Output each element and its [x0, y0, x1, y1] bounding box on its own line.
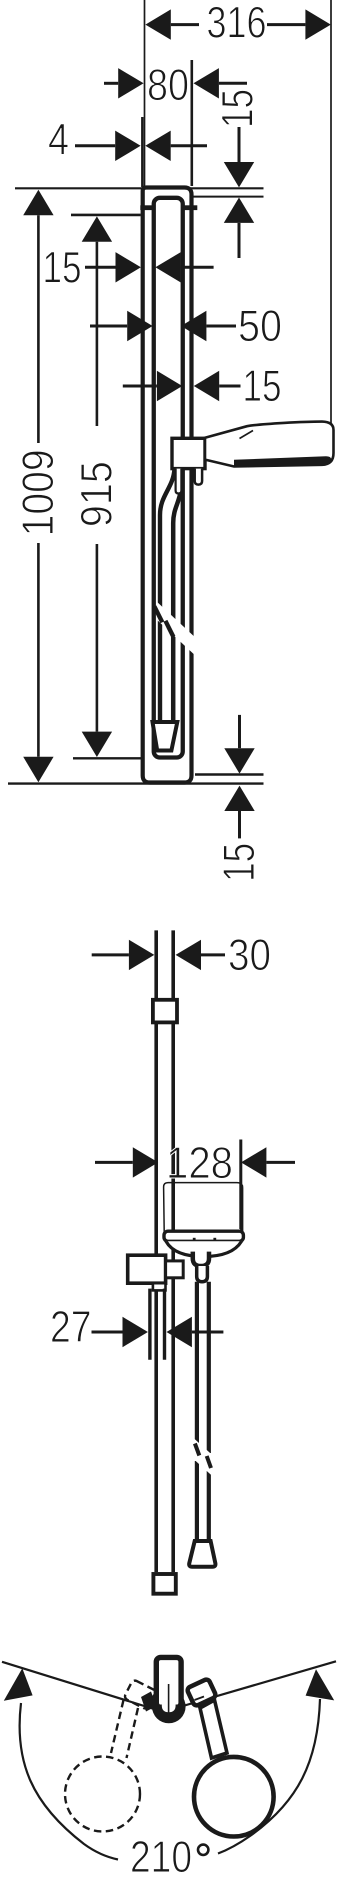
wall bar front line left	[154, 930, 158, 1572]
dashed holder piece	[124, 1679, 157, 1710]
holder lower tab	[153, 1283, 166, 1290]
slider holder (side view)	[172, 438, 205, 468]
dimension 15 bottom right (vertical)	[238, 715, 241, 748]
dashed shower head circle	[65, 1757, 140, 1832]
svg-text:15: 15	[214, 89, 263, 128]
dimension 15 top right (vertical)	[238, 127, 241, 162]
hose line left (front)	[195, 1282, 199, 1443]
dimension 15 mid right	[123, 385, 157, 388]
extension line bar top (E4)	[15, 187, 264, 189]
svg-text:128: 128	[166, 1139, 233, 1188]
extension line bar bottom right (E8)	[195, 773, 264, 775]
shower hose right line with upper curve	[173, 489, 181, 722]
black nub left of knuckle	[141, 1692, 157, 1712]
svg-text:915: 915	[73, 461, 122, 527]
svg-text:4: 4	[48, 116, 69, 165]
svg-text:210: 210	[130, 1833, 192, 1882]
svg-text:316: 316	[207, 0, 267, 47]
pivot centerline	[168, 1684, 170, 1718]
swivel arrowhead right	[306, 1669, 335, 1700]
solid holder piece	[186, 1678, 216, 1706]
hose nut cup lower	[197, 1266, 208, 1282]
soap dish body box	[164, 1183, 243, 1232]
hose break jog 1 (front)	[195, 1444, 199, 1456]
hose break jog 1	[154, 606, 162, 622]
swivel arrowhead left	[4, 1668, 33, 1701]
rim tick left	[193, 1238, 196, 1241]
dimension 30	[92, 953, 129, 956]
handle cup upper	[193, 1252, 209, 1266]
svg-text:15: 15	[43, 244, 82, 293]
swivel boundary line right	[176, 1661, 336, 1708]
swivel arc right	[218, 1699, 320, 1854]
extension line cap seam left (E6)	[71, 214, 141, 217]
hose break jog 2	[165, 621, 173, 637]
holder clamp stub	[166, 1261, 184, 1278]
extension line inner bottom left (E7)	[73, 757, 141, 759]
solid shower head circle	[194, 1757, 274, 1837]
bar bottom cap (front)	[153, 1574, 175, 1594]
extension line overall bottom (E9)	[8, 782, 264, 784]
dimension 316	[171, 23, 199, 26]
extension line inner top (E5)	[193, 196, 264, 198]
hose break jog 2 (front)	[207, 1456, 211, 1468]
dimension 4	[75, 144, 115, 147]
extension line bar back edge (E2)	[141, 117, 143, 187]
dimension 1009	[37, 215, 40, 443]
spray face band	[234, 456, 331, 466]
extension line right 316 (E3)	[330, 0, 332, 430]
knuckle white U	[162, 1690, 176, 1712]
soap dish bowl	[166, 1241, 242, 1256]
degree symbol	[198, 1845, 208, 1855]
bar cross-section rect	[156, 1657, 181, 1707]
hand shower silhouette (side view)	[205, 422, 334, 467]
dashed handle lines	[127, 1708, 139, 1758]
head-handle seam	[240, 431, 254, 439]
cap seam connector left	[140, 205, 155, 210]
svg-text:80: 80	[147, 61, 189, 110]
hose end piece in bar	[153, 722, 178, 751]
swivel boundary line left	[2, 1662, 162, 1712]
wall bar front line right	[171, 930, 175, 1572]
hose break band (front)	[193, 1437, 214, 1477]
svg-text:15: 15	[243, 362, 282, 411]
extension line wall top (E1)	[144, 0, 146, 189]
wall bar inner profile (side view)	[154, 198, 183, 758]
solid handle	[200, 1700, 227, 1758]
svg-text:30: 30	[228, 931, 271, 980]
wall bar outer profile (side view)	[143, 188, 192, 783]
pivot knuckle black	[152, 1690, 186, 1724]
cap seam connector right	[184, 205, 198, 210]
svg-text:15: 15	[215, 843, 264, 882]
hose end cone	[189, 1541, 215, 1567]
rim tick right	[213, 1238, 216, 1241]
solid piece dash detail	[195, 1697, 205, 1701]
svg-text:50: 50	[238, 302, 282, 351]
hose line right (front)	[207, 1282, 211, 1453]
dimension 915	[96, 242, 99, 426]
dimension 50	[90, 325, 127, 328]
dimension 15 left upper	[85, 266, 116, 269]
hose break white band	[157, 602, 197, 657]
shower hose left line with upper curve	[160, 469, 175, 723]
hose outlet stub	[176, 469, 182, 494]
dimension 128	[95, 1161, 133, 1164]
dimension 27	[92, 1331, 123, 1334]
extension line bar front edge up (E2b)	[191, 60, 194, 186]
bar top cap detail	[153, 1000, 177, 1023]
svg-text:1009: 1009	[14, 449, 63, 536]
soap dish rim	[164, 1231, 243, 1241]
svg-text:27: 27	[50, 1303, 92, 1352]
swivel arc left	[20, 1703, 118, 1860]
slider holder (front)	[128, 1255, 166, 1283]
dashed shower handle	[65, 1679, 156, 1831]
dimension 80	[104, 82, 118, 85]
handle nut stub	[195, 469, 202, 485]
